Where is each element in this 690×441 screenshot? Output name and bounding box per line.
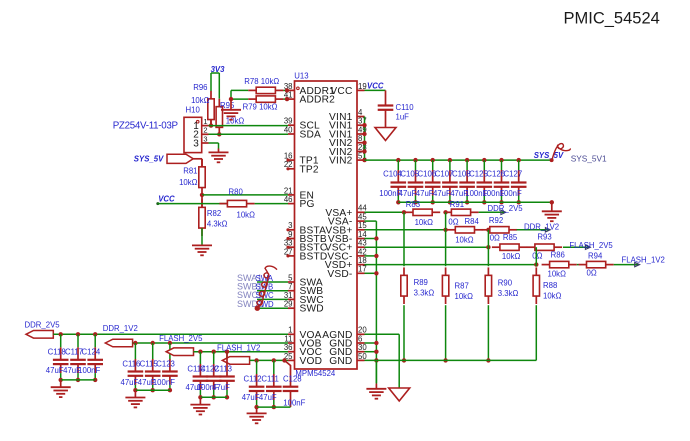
- svg-text:C108: C108: [452, 170, 471, 179]
- svg-text:R89: R89: [414, 278, 428, 287]
- svg-text:VCC: VCC: [367, 81, 384, 90]
- net label FLASH_2V5: [569, 241, 613, 250]
- svg-text:R91: R91: [450, 200, 464, 209]
- ground DDR_2V5 group: [51, 380, 71, 397]
- capacitors C116, C115, C123: [128, 341, 178, 393]
- svg-text:5: 5: [288, 273, 293, 282]
- net label SYS_5V: [534, 151, 564, 160]
- svg-text:C128: C128: [283, 375, 302, 384]
- labels C104-C127 values: [379, 170, 522, 198]
- capacitors C118, C117, C124: [53, 332, 103, 382]
- svg-text:47uF: 47uF: [433, 189, 451, 198]
- svg-text:R86: R86: [551, 251, 565, 260]
- ground FLASH_2V5 group: [190, 397, 210, 414]
- svg-text:50: 50: [358, 352, 367, 361]
- svg-text:DDR_1V2: DDR_1V2: [103, 324, 138, 333]
- svg-text:R83: R83: [406, 200, 420, 209]
- wire VSA+ to R83: [365, 210, 407, 214]
- resistor R87 10k: [442, 212, 473, 362]
- resistor R91 0ohm: [443, 200, 478, 227]
- resistor R82 4.3k: [199, 195, 228, 236]
- svg-text:19: 19: [358, 82, 367, 91]
- svg-text:47uF: 47uF: [242, 393, 260, 402]
- svg-text:10kΩ: 10kΩ: [415, 218, 434, 227]
- svg-text:R88: R88: [543, 281, 557, 290]
- svg-text:10kΩ: 10kΩ: [543, 291, 562, 300]
- svg-text:43: 43: [358, 239, 367, 248]
- net label SYS_5V1: [571, 153, 607, 163]
- svg-text:10kΩ: 10kΩ: [191, 96, 210, 105]
- resistor R92 0ohm: [482, 216, 517, 242]
- svg-text:36: 36: [284, 343, 293, 352]
- svg-text:3: 3: [193, 138, 199, 149]
- node R83-R91: [443, 210, 447, 214]
- wire R96 bottom to SCL: [209, 120, 213, 128]
- svg-text:2: 2: [203, 126, 207, 135]
- svg-text:42: 42: [358, 247, 367, 256]
- wire FLASH_1V2 cap bottom rail: [257, 406, 291, 408]
- title PMIC_54524: [564, 10, 660, 28]
- svg-text:10kΩ: 10kΩ: [237, 211, 256, 220]
- wire VSD+ to R86: [365, 262, 539, 266]
- net label VCC: [156, 195, 175, 206]
- capacitor C110 1uF: [378, 90, 415, 127]
- svg-text:14: 14: [358, 230, 367, 239]
- wire ADDR1 net: [231, 88, 289, 99]
- wire VCC to R80: [158, 203, 228, 205]
- svg-text:R84: R84: [465, 217, 480, 226]
- wire R82 to ground: [201, 228, 203, 245]
- wire 3V3 to R96 and R95: [211, 73, 219, 99]
- svg-text:R94: R94: [588, 251, 603, 260]
- svg-text:15: 15: [358, 221, 367, 230]
- ground triangle AGND: [389, 388, 410, 401]
- svg-text:C127: C127: [504, 170, 523, 179]
- wire FLASH_2V5 to U13: [194, 351, 289, 353]
- resistor R81 10k: [179, 159, 205, 196]
- svg-text:1: 1: [288, 326, 292, 335]
- U13 left pins with names and numbers: [284, 82, 335, 367]
- svg-text:100nF: 100nF: [153, 378, 175, 387]
- wire SCL H10 pin1 to U13: [209, 125, 289, 127]
- port FLASH_2V5: [159, 334, 203, 356]
- node EN divider junction: [200, 193, 204, 197]
- svg-text:4: 4: [358, 108, 363, 117]
- net label FLASH_1V2: [622, 256, 665, 265]
- ground DDR_1V2 group: [125, 390, 145, 407]
- power net 3V3 label: [211, 65, 226, 74]
- wire GND stem to hatched ground: [375, 360, 377, 388]
- svg-text:C126: C126: [486, 170, 505, 179]
- svg-text:C116: C116: [122, 359, 140, 368]
- wire cap bank bottom rail: [398, 200, 554, 204]
- svg-text:31: 31: [284, 291, 293, 300]
- capacitors C112 C111: [249, 358, 282, 409]
- svg-text:47uF: 47uF: [212, 383, 230, 392]
- wire DDR_2V5 cap bottom rail: [61, 379, 95, 381]
- svg-text:SYS_5V1: SYS_5V1: [571, 153, 607, 163]
- resistor R80 10k on PG: [219, 187, 255, 219]
- svg-text:7: 7: [288, 282, 292, 291]
- labels DDR_2V5 caps: [46, 348, 101, 376]
- wire VSA- VSB- VSC- VSD- common to ground: [365, 221, 379, 383]
- svg-text:10kΩ: 10kΩ: [455, 292, 474, 301]
- capacitor bank C104-C127: [391, 158, 527, 205]
- resistor R95 10k pull-up SDA: [216, 99, 244, 136]
- junction R95 to SDA: [217, 132, 221, 136]
- resistor R94 0ohm: [579, 251, 614, 277]
- svg-text:6: 6: [358, 334, 362, 343]
- svg-text:100nF: 100nF: [500, 189, 522, 198]
- svg-text:VOD: VOD: [300, 356, 323, 367]
- wire C113 over FLASH_1V2 flag: [226, 352, 228, 364]
- svg-text:R81: R81: [183, 167, 197, 176]
- wire VCC pin19: [365, 81, 386, 90]
- wire SYS_5V rail: [365, 158, 554, 162]
- svg-text:3: 3: [203, 134, 207, 143]
- wire VSB+ to R84: [365, 228, 448, 232]
- resistor R85 10k: [492, 233, 527, 261]
- ground H10 pin3: [209, 152, 229, 162]
- wire FLASH_2V5 cap bottom rail: [200, 396, 227, 398]
- svg-text:1: 1: [203, 117, 207, 126]
- svg-text:FLASH_1V2: FLASH_1V2: [622, 256, 665, 265]
- svg-text:R96: R96: [193, 83, 207, 92]
- wire R86-R94: [577, 264, 579, 266]
- wire VSC+ to R85: [365, 245, 491, 249]
- svg-text:0Ω: 0Ω: [448, 218, 458, 227]
- MPM54524 value label: [295, 369, 336, 378]
- ground cap bank: [542, 202, 562, 221]
- svg-text:R90: R90: [498, 279, 513, 288]
- svg-text:11: 11: [284, 334, 292, 343]
- no-connect squiggle over SW pins: [255, 266, 277, 311]
- svg-text:44: 44: [358, 204, 367, 213]
- svg-text:47uF: 47uF: [259, 393, 277, 402]
- svg-text:C117: C117: [65, 348, 83, 357]
- svg-text:47uF: 47uF: [121, 378, 139, 387]
- unconnected pin-end dots BSTA-BSTD TP1 TP2: [286, 159, 289, 258]
- svg-text:29: 29: [284, 300, 293, 309]
- svg-text:30: 30: [358, 343, 367, 352]
- svg-text:VCC: VCC: [330, 86, 352, 97]
- wire DDR_1V2 to U13: [133, 342, 288, 344]
- svg-text:R95: R95: [220, 101, 235, 110]
- wire SYS_5V to R81: [193, 159, 202, 168]
- svg-text:0Ω: 0Ω: [490, 233, 500, 242]
- ground below R82: [192, 245, 212, 255]
- wire DDR_1V2 cap bottom rail: [135, 389, 170, 391]
- svg-text:C123: C123: [156, 359, 175, 368]
- svg-text:PZ254V-11-03P: PZ254V-11-03P: [113, 121, 179, 132]
- svg-text:R78 10kΩ: R78 10kΩ: [244, 77, 279, 86]
- labels DDR_1V2 caps: [121, 359, 176, 387]
- H10 pin stubs and numbers: [202, 117, 209, 143]
- svg-text:47uF: 47uF: [399, 189, 417, 198]
- svg-text:PMIC_54524: PMIC_54524: [564, 10, 660, 28]
- svg-text:R87: R87: [455, 282, 469, 291]
- svg-text:C124: C124: [82, 348, 101, 357]
- wire EN to U13: [202, 194, 288, 196]
- svg-text:H10: H10: [186, 106, 201, 115]
- wire AGND to triangle ground: [365, 334, 400, 388]
- wire GND pins common: [365, 341, 379, 363]
- svg-text:DDR_1V2: DDR_1V2: [524, 223, 559, 232]
- svg-text:8: 8: [358, 134, 362, 143]
- resistor R88 10k: [533, 247, 561, 360]
- svg-text:C110: C110: [396, 103, 415, 112]
- U13 right pins with names and numbers: [322, 82, 367, 367]
- svg-text:C111: C111: [261, 375, 278, 384]
- svg-text:0Ω: 0Ω: [532, 252, 542, 261]
- ground triangle below C110: [375, 128, 396, 141]
- port FLASH_1V2: [217, 343, 260, 364]
- connector H10 PZ254V-11-03P: [184, 117, 202, 152]
- svg-text:10kΩ: 10kΩ: [455, 235, 474, 244]
- labels FLASH_2V5 caps: [186, 364, 232, 392]
- net label DDR_2V5: [488, 204, 524, 213]
- ground for ADDR pull-downs: [221, 99, 241, 120]
- resistor R86 10k: [542, 251, 577, 279]
- svg-text:45: 45: [358, 213, 367, 222]
- port DDR_1V2: [103, 324, 138, 347]
- svg-text:R82: R82: [207, 209, 221, 218]
- wire R93 to FLASH_2V5: [563, 245, 590, 249]
- labels C112 C111 C128: [242, 375, 306, 408]
- resistor R79 10k ADDR2: [243, 96, 284, 112]
- svg-text:100nF: 100nF: [78, 366, 100, 375]
- svg-text:10kΩ: 10kΩ: [548, 270, 567, 279]
- wire R92 to DDR_1V2: [517, 228, 551, 232]
- svg-text:17: 17: [358, 265, 367, 274]
- H10 part number PZ254V-11-03P: [113, 121, 179, 132]
- H10 designator: [186, 106, 201, 115]
- ground hatched GND pins: [366, 389, 386, 399]
- wire SDA H10 pin2 to U13: [209, 133, 289, 135]
- svg-text:VCC: VCC: [158, 195, 175, 204]
- wires SWA SWB SWC SWD: [257, 282, 288, 308]
- op-amp U13 MPM54524 PMIC body: [295, 81, 358, 369]
- svg-text:C106: C106: [418, 170, 437, 179]
- wire GND rail row31: [365, 359, 537, 361]
- svg-text:0Ω: 0Ω: [587, 269, 597, 278]
- wire H10 pin3 to ground: [209, 143, 219, 152]
- svg-text:C113: C113: [214, 364, 232, 373]
- svg-text:C112: C112: [244, 375, 262, 384]
- wire VIN1 VIN2 tie: [362, 117, 366, 163]
- svg-text:10kΩ: 10kΩ: [226, 117, 245, 126]
- svg-text:3.3kΩ: 3.3kΩ: [414, 289, 435, 298]
- svg-text:DDR_2V5: DDR_2V5: [25, 321, 61, 330]
- resistor R83 10k: [405, 200, 440, 227]
- svg-text:20: 20: [358, 326, 367, 335]
- svg-text:R80: R80: [229, 187, 244, 196]
- wire DDR_2V5 to U13: [53, 333, 288, 335]
- svg-text:R93: R93: [537, 232, 551, 241]
- port DDR_2V5: [25, 321, 61, 339]
- svg-text:SWD: SWD: [300, 304, 324, 315]
- no-connect squiggle SYS_5V: [552, 144, 571, 161]
- wire R91 to DDR_2V5: [479, 210, 506, 214]
- svg-text:47uF: 47uF: [416, 189, 434, 198]
- net labels SWA1 SWB1 SWC1 SWD1 and SWA SWB SWC SWD: [237, 273, 274, 309]
- svg-text:DDR_2V5: DDR_2V5: [488, 204, 524, 213]
- wire FLASH_1V2 to U13: [250, 359, 288, 361]
- svg-text:1uF: 1uF: [396, 113, 410, 122]
- ground FLASH_1V2 group: [247, 407, 267, 423]
- U13 designator: [294, 71, 308, 80]
- node R85-R93: [534, 245, 538, 249]
- svg-text:18: 18: [358, 256, 367, 265]
- capacitor C128: [282, 358, 298, 407]
- wire R80 to PG pin: [255, 203, 288, 205]
- power flag SYS_5V: [134, 154, 193, 163]
- svg-text:SYS_5V: SYS_5V: [134, 155, 164, 164]
- wire R94 to FLASH_1V2: [614, 262, 640, 266]
- svg-text:TP2: TP2: [300, 164, 319, 175]
- svg-text:GND: GND: [329, 356, 352, 367]
- svg-text:46: 46: [284, 195, 293, 204]
- svg-text:FLASH_2V5: FLASH_2V5: [159, 334, 203, 343]
- svg-text:BSTD: BSTD: [300, 251, 328, 262]
- svg-text:21: 21: [284, 186, 293, 195]
- svg-text:FLASH_2V5: FLASH_2V5: [569, 241, 613, 250]
- svg-text:C107: C107: [435, 170, 454, 179]
- svg-text:3.3kΩ: 3.3kΩ: [498, 289, 519, 298]
- resistor R89 3.3k: [401, 212, 435, 362]
- svg-text:40: 40: [284, 125, 293, 134]
- svg-text:100nF: 100nF: [283, 399, 305, 408]
- svg-text:SDA: SDA: [300, 130, 322, 141]
- svg-text:VSD-: VSD-: [327, 269, 352, 280]
- capacitors C114, C122, C113: [193, 350, 235, 400]
- svg-text:R85: R85: [503, 233, 518, 242]
- net label DDR_1V2: [524, 223, 559, 232]
- svg-text:10kΩ: 10kΩ: [502, 252, 521, 261]
- svg-text:39: 39: [284, 117, 293, 126]
- node R84-R92: [486, 228, 490, 232]
- svg-text:R79 10kΩ: R79 10kΩ: [243, 103, 278, 112]
- svg-text:FLASH_1V2: FLASH_1V2: [217, 343, 260, 352]
- resistor R96 10k pull-up SCL: [191, 83, 214, 128]
- svg-text:R92: R92: [489, 216, 503, 225]
- svg-text:SYS_5V: SYS_5V: [534, 151, 564, 160]
- svg-text:PG: PG: [300, 199, 315, 210]
- svg-text:10kΩ: 10kΩ: [179, 178, 198, 187]
- svg-text:C118: C118: [48, 348, 66, 357]
- svg-text:47uF: 47uF: [46, 366, 64, 375]
- svg-text:U13: U13: [294, 71, 308, 80]
- resistor R90 3.3k: [485, 230, 518, 363]
- svg-text:4.3kΩ: 4.3kΩ: [207, 220, 228, 229]
- wire ADDR2 net: [229, 97, 289, 101]
- svg-text:VIN2: VIN2: [329, 156, 353, 167]
- resistor R78 10k ADDR1: [244, 77, 283, 93]
- resistor R93 0ohm: [527, 232, 562, 260]
- resistor R84 10k: [447, 217, 482, 244]
